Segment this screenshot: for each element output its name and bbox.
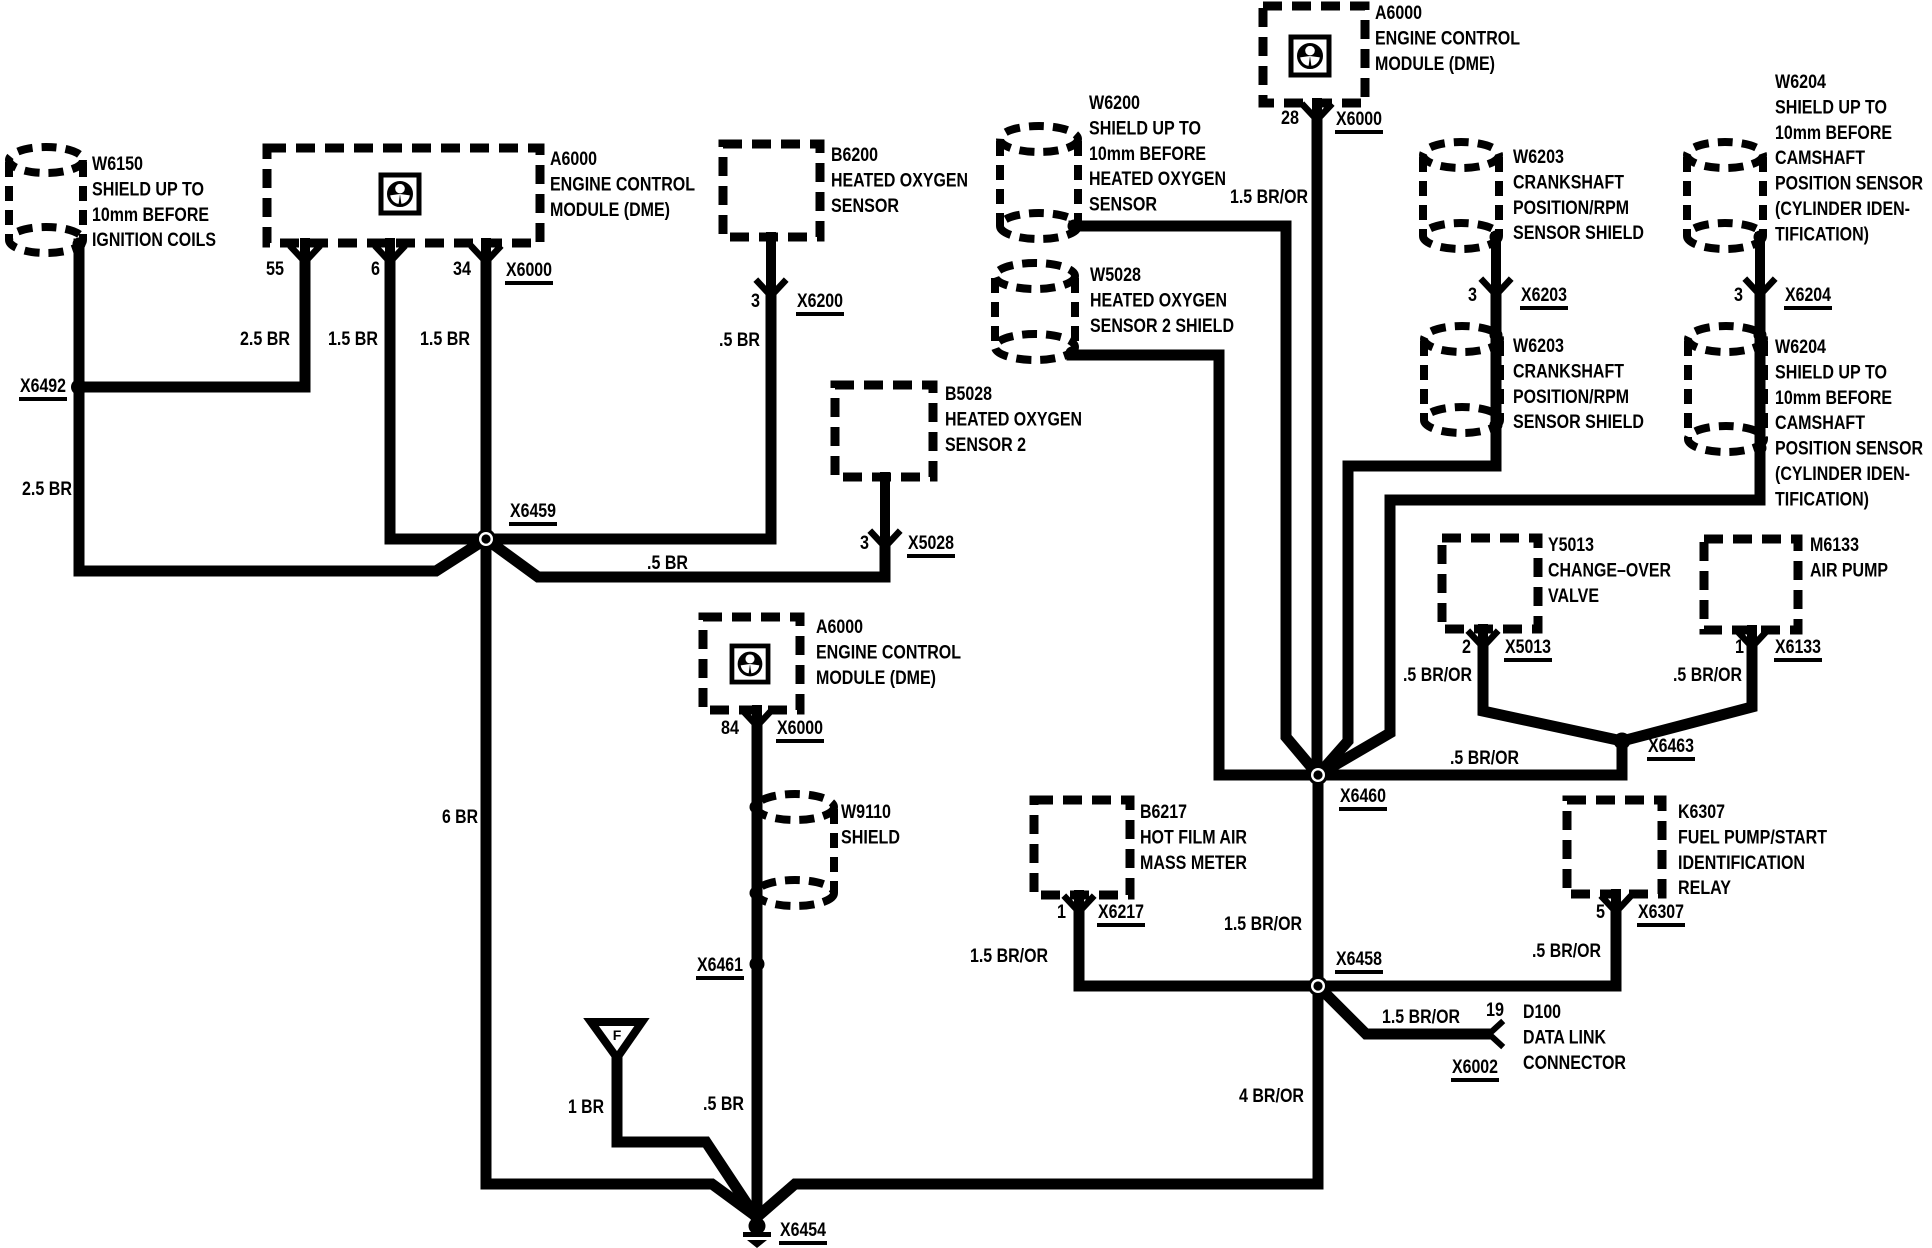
wire 2.5 BR from node X6492 to DME pin 55 xyxy=(79,262,305,387)
svg-text:.5 BR/OR: .5 BR/OR xyxy=(1450,747,1519,769)
svg-text:ENGINE CONTROL: ENGINE CONTROL xyxy=(550,173,695,195)
svg-text:SHIELD UP TO: SHIELD UP TO xyxy=(1775,361,1887,383)
label B5028 text xyxy=(945,383,1082,456)
svg-text:HEATED OXYGEN: HEATED OXYGEN xyxy=(1089,168,1226,190)
node X6461 xyxy=(750,957,765,972)
svg-text:X6463: X6463 xyxy=(1648,735,1694,757)
wire stub DME pin 55 xyxy=(300,243,310,254)
arrow X6204 xyxy=(1747,281,1773,295)
svg-text:SENSOR: SENSOR xyxy=(1089,194,1157,216)
svg-text:3: 3 xyxy=(1468,284,1477,306)
label D100 data link connector text xyxy=(1523,1001,1626,1074)
svg-text:SENSOR SHIELD: SENSOR SHIELD xyxy=(1513,411,1644,433)
node dot W9110 top xyxy=(750,801,763,814)
pin label 3 X6200 xyxy=(751,290,760,312)
svg-text:HEATED OXYGEN: HEATED OXYGEN xyxy=(831,169,968,191)
wire 4 BR/OR from X6458 junction down to ground X6454 xyxy=(757,986,1318,1217)
svg-text:2.5 BR: 2.5 BR xyxy=(22,478,72,500)
label 2.5 BR pin55 wire xyxy=(240,328,290,350)
svg-text:.5 BR/OR: .5 BR/OR xyxy=(1673,664,1742,686)
svg-text:SHIELD UP TO: SHIELD UP TO xyxy=(1089,117,1201,139)
svg-text:X6002: X6002 xyxy=(1452,1056,1498,1078)
wire .5 BR/OR from change-over valve X5013 to X6463 junction xyxy=(1483,647,1622,741)
svg-text:4 BR/OR: 4 BR/OR xyxy=(1239,1085,1304,1107)
svg-text:5: 5 xyxy=(1596,901,1605,923)
svg-text:X6460: X6460 xyxy=(1340,785,1386,807)
label .5 BR fuse wire xyxy=(703,1093,744,1115)
svg-text:X6203: X6203 xyxy=(1521,284,1567,306)
wire 1.5 BR/OR from X6458 junction to data link connector X6002 xyxy=(1318,986,1486,1034)
svg-text:HEATED OXYGEN: HEATED OXYGEN xyxy=(945,408,1082,430)
svg-text:X6217: X6217 xyxy=(1098,901,1144,923)
label W5028 shield text xyxy=(1090,264,1234,337)
wire stub DME pin 34 xyxy=(481,243,491,254)
svg-text:10mm BEFORE: 10mm BEFORE xyxy=(1775,387,1892,409)
arrow pin 34 X6000 xyxy=(473,248,499,262)
svg-text:.5 BR: .5 BR xyxy=(719,329,760,351)
arrow D100 data link connector X6002 xyxy=(1489,1023,1501,1045)
label W6204 upper text xyxy=(1775,71,1923,245)
svg-text:F: F xyxy=(613,1027,622,1043)
wire stub B5028 to arrow X5028 xyxy=(880,477,890,539)
label 1.5 BR/OR X6217 wire xyxy=(970,945,1048,967)
label W9110 shield text xyxy=(841,801,900,848)
label X6217 xyxy=(1097,901,1145,925)
wire .5 BR from X6459 junction to connector X5028 xyxy=(486,539,885,577)
wire stub Y5013 to arrow X5013 xyxy=(1478,629,1488,639)
pin label 1 X6217 xyxy=(1057,901,1066,923)
node dot shield W6150 xyxy=(73,238,86,251)
arrow X6133 xyxy=(1739,633,1765,647)
svg-text:.5 BR/OR: .5 BR/OR xyxy=(1403,664,1472,686)
shield W9110 (cylinder) xyxy=(756,794,834,906)
svg-text:.5 BR: .5 BR xyxy=(647,552,688,574)
svg-text:MODULE (DME): MODULE (DME) xyxy=(550,199,670,221)
svg-text:X5013: X5013 xyxy=(1505,636,1551,658)
label X6454 xyxy=(779,1219,827,1243)
meter B6217 hot film air mass meter box xyxy=(1034,800,1130,895)
svg-text:1.5 BR: 1.5 BR xyxy=(328,328,378,350)
label .5 BR/OR X6463-X6460 wire xyxy=(1450,747,1519,769)
svg-text:A6000: A6000 xyxy=(550,148,597,170)
svg-text:84: 84 xyxy=(721,717,739,739)
svg-text:HOT FILM AIR: HOT FILM AIR xyxy=(1140,826,1247,848)
node dot W6204 lower bottom xyxy=(1754,442,1767,455)
svg-text:CAMSHAFT: CAMSHAFT xyxy=(1775,147,1865,169)
wire 1.5 BR from DME pin 6 down to X6459 junction xyxy=(390,262,486,539)
svg-text:SENSOR SHIELD: SENSOR SHIELD xyxy=(1513,222,1644,244)
wire stub DME top box to arrow pin 28 xyxy=(1312,103,1322,112)
fuse symbol F xyxy=(591,1022,642,1058)
wire .5 BR from X6461 down to ground X6454 xyxy=(752,726,763,1216)
wire from shield W5028 down to X6460 junction xyxy=(1072,355,1318,775)
svg-text:1.5 BR: 1.5 BR xyxy=(420,328,470,350)
svg-text:28: 28 xyxy=(1281,107,1299,129)
svg-text:HEATED OXYGEN: HEATED OXYGEN xyxy=(1090,289,1227,311)
wire .5 BR/OR from relay X6307 to X6458 junction xyxy=(1318,912,1616,986)
svg-text:W6150: W6150 xyxy=(92,153,143,175)
wire 6 BR from X6459 junction down to ground X6454 xyxy=(486,539,757,1217)
svg-text:3: 3 xyxy=(1734,284,1743,306)
svg-text:IGNITION COILS: IGNITION COILS xyxy=(92,229,216,251)
arrow X6200 xyxy=(758,282,784,296)
svg-text:1 BR: 1 BR xyxy=(568,1096,604,1118)
svg-text:MODULE (DME): MODULE (DME) xyxy=(1375,53,1495,75)
label B6200 text xyxy=(831,144,968,217)
svg-text:1.5 BR/OR: 1.5 BR/OR xyxy=(970,945,1048,967)
label Y5013 text xyxy=(1548,534,1671,607)
svg-text:X5028: X5028 xyxy=(908,532,954,554)
svg-text:MODULE (DME): MODULE (DME) xyxy=(816,667,936,689)
label X6463 xyxy=(1647,735,1695,759)
node X6492 xyxy=(71,379,87,395)
wire 1.5 BR/OR from X6460 junction down to X6458 junction xyxy=(1313,775,1324,986)
svg-text:CHANGE–OVER: CHANGE–OVER xyxy=(1548,559,1671,581)
wire 1 BR from fuse symbol F down to ground X6454 xyxy=(617,1060,755,1216)
svg-text:(CYLINDER IDEN-: (CYLINDER IDEN- xyxy=(1775,463,1910,485)
label 1.5 BR/OR W6200 wire xyxy=(1230,186,1308,208)
svg-text:W9110: W9110 xyxy=(841,801,891,823)
svg-text:SHIELD UP TO: SHIELD UP TO xyxy=(92,178,204,200)
svg-text:34: 34 xyxy=(453,258,471,280)
svg-text:X6204: X6204 xyxy=(1785,284,1831,306)
label W6203 lower text xyxy=(1513,335,1644,433)
wire from crankshaft sensor shield W6203 through X6203 to X6460 junction xyxy=(1491,237,1501,287)
label 1.5 BR/OR D100 wire xyxy=(1382,1006,1460,1028)
label X6492 xyxy=(19,375,67,399)
svg-text:1: 1 xyxy=(1057,901,1066,923)
label W6204 lower text xyxy=(1775,336,1923,510)
wire stub B6217 to arrow X6217 xyxy=(1074,895,1084,904)
ground X6454 xyxy=(743,1218,771,1248)
pin label 19 D100 xyxy=(1486,999,1504,1021)
shield W6203 lower (cylinder) xyxy=(1424,326,1500,433)
wire 2.5 BR shield W6150 down through X6492 to X6459 junction xyxy=(79,244,486,571)
pin label 5 X6307 xyxy=(1596,901,1605,923)
svg-text:POSITION SENSOR: POSITION SENSOR xyxy=(1775,173,1923,195)
arrow X5028 xyxy=(872,533,898,547)
svg-text:CAMSHAFT: CAMSHAFT xyxy=(1775,412,1865,434)
svg-text:MASS METER: MASS METER xyxy=(1140,852,1247,874)
svg-text:FUEL PUMP/START: FUEL PUMP/START xyxy=(1678,826,1827,848)
wire from X6204 down through W6204 lower shield to X6460 junction xyxy=(1318,295,1760,775)
svg-text:VALVE: VALVE xyxy=(1548,585,1599,607)
pin label 28 xyxy=(1281,107,1299,129)
svg-text:CRANKSHAFT: CRANKSHAFT xyxy=(1513,360,1624,382)
svg-text:SENSOR 2: SENSOR 2 xyxy=(945,434,1026,456)
svg-text:19: 19 xyxy=(1486,999,1504,1021)
label 6 BR wire xyxy=(442,806,478,828)
label X6458 xyxy=(1335,948,1383,972)
node dot shield W5028 xyxy=(1066,347,1079,360)
label B6217 text xyxy=(1140,801,1247,874)
wire stub B6200 to arrow X6200 xyxy=(766,237,776,288)
pin label 55 xyxy=(266,258,284,280)
arrow X5013 xyxy=(1470,633,1496,647)
svg-text:K6307: K6307 xyxy=(1678,801,1725,823)
wire 1.5 BR/OR from DME pin 28 down to X6460 junction xyxy=(1312,120,1323,775)
svg-text:1: 1 xyxy=(1735,636,1744,658)
node dot W6204 lower top xyxy=(1754,329,1767,342)
svg-text:CONNECTOR: CONNECTOR xyxy=(1523,1052,1626,1074)
label X6200 xyxy=(796,290,844,314)
svg-text:10mm BEFORE: 10mm BEFORE xyxy=(92,204,209,226)
DME icon middle box xyxy=(732,646,768,682)
pin label 84 xyxy=(721,717,739,739)
svg-text:IDENTIFICATION: IDENTIFICATION xyxy=(1678,852,1805,874)
svg-text:2: 2 xyxy=(1462,636,1471,658)
svg-text:AIR PUMP: AIR PUMP xyxy=(1810,559,1888,581)
svg-text:ENGINE CONTROL: ENGINE CONTROL xyxy=(816,641,961,663)
svg-text:X6200: X6200 xyxy=(797,290,843,312)
wire stub M6133 to arrow X6133 xyxy=(1747,630,1757,639)
node dot shield W6200 xyxy=(1068,220,1081,233)
wire .5 BR/OR from X6463 junction to X6460 junction xyxy=(1318,741,1622,775)
svg-text:D100: D100 xyxy=(1523,1001,1561,1023)
label X6000 middle xyxy=(776,717,824,741)
arrow X6307 xyxy=(1603,898,1629,912)
node dot W6203 upper xyxy=(1490,231,1503,244)
svg-text:2.5 BR: 2.5 BR xyxy=(240,328,290,350)
label W6150 shield text xyxy=(92,153,216,251)
pin label 3 X5028 xyxy=(860,532,869,554)
label .5 BR X5028 wire xyxy=(647,552,688,574)
motor M6133 air pump box xyxy=(1704,539,1798,630)
DME icon top box xyxy=(1291,37,1329,75)
label X6204 xyxy=(1784,284,1832,308)
svg-text:X6461: X6461 xyxy=(697,954,743,976)
svg-text:A6000: A6000 xyxy=(816,616,863,638)
svg-text:POSITION/RPM: POSITION/RPM xyxy=(1513,386,1629,408)
label M6133 text xyxy=(1810,534,1888,581)
svg-text:W6203: W6203 xyxy=(1513,146,1564,168)
node X6463 junction xyxy=(1614,733,1631,750)
pin label 3 X6203 xyxy=(1468,284,1477,306)
svg-text:ENGINE CONTROL: ENGINE CONTROL xyxy=(1375,27,1520,49)
wire stub K6307 to arrow X6307 xyxy=(1611,894,1621,904)
svg-text:10mm BEFORE: 10mm BEFORE xyxy=(1775,122,1892,144)
svg-text:W6203: W6203 xyxy=(1513,335,1564,357)
svg-text:W6204: W6204 xyxy=(1775,71,1826,93)
node X6458 junction xyxy=(1308,976,1328,996)
svg-text:POSITION SENSOR: POSITION SENSOR xyxy=(1775,438,1923,460)
node dot W6203 lower top xyxy=(1490,329,1503,342)
op A6000 engine control module box (left) xyxy=(267,148,540,243)
shield W6203 upper (cylinder) xyxy=(1423,142,1499,249)
svg-text:SENSOR: SENSOR xyxy=(831,195,899,217)
label X6459 xyxy=(509,500,557,524)
connector B5028 heated oxygen sensor 2 box xyxy=(835,385,933,477)
svg-text:Y5013: Y5013 xyxy=(1548,534,1594,556)
svg-text:DATA LINK: DATA LINK xyxy=(1523,1026,1606,1048)
label A6000 top box text xyxy=(1375,2,1520,75)
shield W6204 upper (cylinder) xyxy=(1687,142,1763,249)
shield W5028 (cylinder) xyxy=(995,263,1075,360)
label W6203 upper text xyxy=(1513,146,1644,244)
label .5 BR X6200 wire xyxy=(719,329,760,351)
label A6000 left box text xyxy=(550,148,695,221)
svg-text:SENSOR 2 SHIELD: SENSOR 2 SHIELD xyxy=(1090,315,1234,337)
svg-text:CRANKSHAFT: CRANKSHAFT xyxy=(1513,171,1624,193)
shield W6200 (cylinder) xyxy=(1000,126,1078,239)
arrow X6217 xyxy=(1066,898,1092,912)
label 4 BR/OR wire xyxy=(1239,1085,1304,1107)
label 1.5 BR pin34 wire xyxy=(420,328,470,350)
label 1.5 BR/OR X6460-X6458 wire xyxy=(1224,913,1302,935)
label X6203 xyxy=(1520,284,1568,308)
svg-text:.5 BR/OR: .5 BR/OR xyxy=(1532,940,1601,962)
wire stub DME pin 6 xyxy=(385,243,395,254)
svg-text:6 BR: 6 BR xyxy=(442,806,478,828)
node dot W6204 upper xyxy=(1754,231,1767,244)
wire 1.5 BR/OR from shield W6200 down to X6460 junction xyxy=(1074,226,1318,775)
wire 1.5 BR from DME pin 34 down to X6459 junction xyxy=(481,262,492,539)
svg-text:X6307: X6307 xyxy=(1638,901,1684,923)
label X6133 xyxy=(1774,636,1822,660)
svg-text:W5028: W5028 xyxy=(1090,264,1141,286)
label X6460 xyxy=(1339,785,1387,809)
svg-text:A6000: A6000 xyxy=(1375,2,1422,24)
svg-text:X6000: X6000 xyxy=(1336,108,1382,130)
svg-text:1.5 BR/OR: 1.5 BR/OR xyxy=(1382,1006,1460,1028)
op A6000 engine control module box (top) xyxy=(1263,6,1365,103)
svg-text:POSITION/RPM: POSITION/RPM xyxy=(1513,197,1629,219)
label K6307 text xyxy=(1678,801,1827,899)
label 1.5 BR pin6 wire xyxy=(328,328,378,350)
arrow pin 55 X6000 xyxy=(292,248,318,262)
svg-text:X6133: X6133 xyxy=(1775,636,1821,658)
label X6461 xyxy=(696,954,744,978)
svg-text:.5 BR: .5 BR xyxy=(703,1093,744,1115)
shield W6150 (cylinder) xyxy=(9,147,83,253)
label X6000 top xyxy=(1335,108,1383,132)
arrow pin 28 X6000 xyxy=(1304,106,1330,120)
svg-text:SHIELD: SHIELD xyxy=(841,826,900,848)
svg-text:X6459: X6459 xyxy=(510,500,556,522)
svg-text:X6000: X6000 xyxy=(777,717,823,739)
valve Y5013 change-over valve box xyxy=(1442,538,1538,629)
svg-text:B6217: B6217 xyxy=(1140,801,1187,823)
DME icon left box xyxy=(381,175,419,213)
wire .5 BR from X6459 junction to connector X6200 xyxy=(486,296,771,539)
svg-text:TIFICATION): TIFICATION) xyxy=(1775,488,1869,510)
wire 1.5 BR/OR from hot film air mass meter X6217 to X6458 junction xyxy=(1079,912,1318,986)
svg-text:1.5 BR/OR: 1.5 BR/OR xyxy=(1224,913,1302,935)
svg-text:W6200: W6200 xyxy=(1089,92,1140,114)
label .5 BR/OR X5013 wire xyxy=(1403,664,1472,686)
relay K6307 fuel pump/start identification relay box xyxy=(1567,800,1662,894)
label X6002 xyxy=(1451,1056,1499,1080)
svg-text:SHIELD UP TO: SHIELD UP TO xyxy=(1775,96,1887,118)
label 1 BR wire xyxy=(568,1096,604,1118)
pin label 6 xyxy=(371,258,380,280)
wire .5 BR/OR from air pump X6133 to X6463 junction xyxy=(1622,647,1752,741)
arrow pin 6 X6000 xyxy=(377,248,403,262)
label X6307 xyxy=(1637,901,1685,925)
wire stub DME middle box to arrow pin 84 xyxy=(752,710,762,718)
svg-text:X6454: X6454 xyxy=(780,1219,826,1241)
label X5013 xyxy=(1504,636,1552,660)
svg-text:1.5 BR/OR: 1.5 BR/OR xyxy=(1230,186,1308,208)
label 2.5 BR vertical wire xyxy=(22,478,72,500)
label W6200 shield text xyxy=(1089,92,1226,216)
svg-text:B6200: B6200 xyxy=(831,144,878,166)
svg-text:3: 3 xyxy=(860,532,869,554)
shield W6204 lower (cylinder) xyxy=(1688,326,1764,452)
svg-text:M6133: M6133 xyxy=(1810,534,1859,556)
node X6459 junction xyxy=(476,529,496,549)
svg-text:W6204: W6204 xyxy=(1775,336,1826,358)
pin label 1 X6133 xyxy=(1735,636,1744,658)
svg-text:3: 3 xyxy=(751,290,760,312)
label A6000 middle box text xyxy=(816,616,961,689)
label .5 BR/OR X6307 wire xyxy=(1532,940,1601,962)
svg-text:X6458: X6458 xyxy=(1336,948,1382,970)
arrow pin 84 X6000 xyxy=(744,712,770,726)
svg-text:X6000: X6000 xyxy=(506,259,552,281)
label X5028 xyxy=(907,532,955,556)
label X6000 left xyxy=(505,259,553,283)
svg-text:10mm BEFORE: 10mm BEFORE xyxy=(1089,143,1206,165)
svg-text:TIFICATION): TIFICATION) xyxy=(1775,223,1869,245)
svg-text:X6492: X6492 xyxy=(20,375,66,397)
node dot W6203 lower bottom xyxy=(1490,419,1503,432)
pin label 3 X6204 xyxy=(1734,284,1743,306)
svg-text:55: 55 xyxy=(266,258,284,280)
connector B6200 heated oxygen sensor box xyxy=(723,144,820,237)
pin label 2 X5013 xyxy=(1462,636,1471,658)
svg-text:6: 6 xyxy=(371,258,380,280)
pin label 34 xyxy=(453,258,471,280)
node dot W9110 bottom xyxy=(750,887,763,900)
svg-text:RELAY: RELAY xyxy=(1678,877,1731,899)
op A6000 engine control module box (middle) xyxy=(703,617,800,710)
svg-text:B5028: B5028 xyxy=(945,383,992,405)
wire from camshaft sensor shield W6204 through X6204 to X6460 junction xyxy=(1755,237,1765,287)
label .5 BR/OR X6133 wire xyxy=(1673,664,1742,686)
node X6460 junction xyxy=(1308,765,1328,785)
svg-text:(CYLINDER IDEN-: (CYLINDER IDEN- xyxy=(1775,198,1910,220)
wire from X6203 down through W6203 lower shield to X6460 junction xyxy=(1318,295,1496,775)
arrow X6203 xyxy=(1483,281,1509,295)
